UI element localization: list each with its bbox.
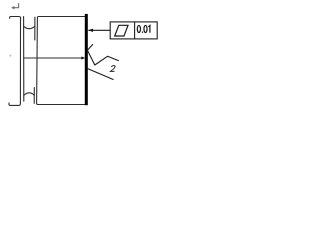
groove inner left line (line2) [23,17,25,102]
left outer line (line1) [19,18,21,103]
faint speck [9,55,11,57]
digit 1 [148,25,150,32]
surface roughness symbol [87,44,118,65]
paragraph return mark [14,3,19,8]
digit 0 [144,25,147,32]
body top edge [39,16,86,18]
top break spur [10,17,21,19]
internal leader to end face [24,57,82,59]
flatness parallelogram [115,25,128,36]
groove inner right line (line3 upper segment) [34,17,36,40]
lower leader diagonal [87,68,114,79]
groove hill arc (bottom) [24,93,35,95]
groove valley arc (top) [24,26,35,28]
shaft outline group [9,17,85,106]
thick toleranced end face [85,14,88,105]
right groove wall / body left edge (line4) [37,17,39,105]
roughness value 2 (stroke digit) [110,66,116,72]
digit 0 [137,25,140,32]
internal leader arrowhead [81,57,85,60]
FCF leader line [88,29,110,31]
tolerance value 0.01 (stroke digits) [137,25,150,32]
bottom break spur [9,103,20,106]
decimal point [142,32,143,33]
FCF leader arrowhead [88,29,93,32]
feature control frame [110,22,157,39]
body bottom edge [38,104,85,106]
groove inner right line (line3 lower segment) [33,88,35,104]
